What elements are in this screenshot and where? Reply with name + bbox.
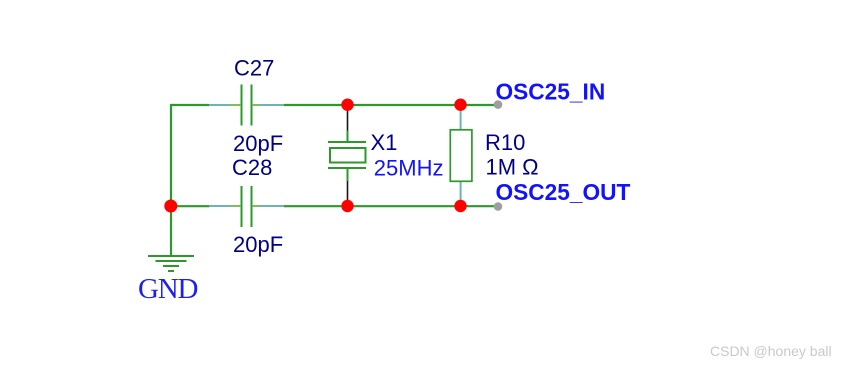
capacitor C27 pin 2 [253,104,284,106]
svg-text:20pF: 20pF [233,131,283,156]
resistor R10 pin 2 [460,181,462,201]
svg-text:R10: R10 [485,130,525,155]
junction top resistor [454,99,466,111]
wire left vertical [170,104,172,206]
node OSC25_OUT port dot [494,202,503,211]
wire bottom rail right segment [284,205,498,207]
capacitor C28 pin 2 [253,205,284,207]
wire top rail right segment [284,104,498,106]
svg-text:25MHz: 25MHz [374,156,444,181]
capacitor C27 [242,85,252,126]
junction bottom left [164,200,177,213]
resistor R10 [450,130,472,182]
crystal X1 pin 1 [347,110,349,142]
svg-text:X1: X1 [371,130,398,155]
crystal X1 pin 2 [347,169,349,202]
ground [148,256,194,271]
capacitor C28 [242,186,252,227]
svg-text:CSDN @honey ball: CSDN @honey ball [710,343,832,359]
node OSC25_IN port dot [494,100,503,109]
capacitor C28 pin 1 [209,205,240,207]
svg-text:GND: GND [138,273,197,305]
crystal X1 [328,142,366,168]
capacitor C27 pin 1 [209,104,240,106]
svg-text:20pF: 20pF [233,232,283,257]
junction bottom crystal [341,200,353,212]
resistor R10 pin 1 [460,110,462,130]
junction top crystal [341,99,353,111]
svg-text:C27: C27 [234,56,274,81]
svg-text:OSC25_OUT: OSC25_OUT [496,179,631,205]
wire bottom rail left segment [170,205,209,207]
svg-text:OSC25_IN: OSC25_IN [496,79,606,105]
wire top rail left segment [170,104,209,106]
svg-text:C28: C28 [232,155,272,180]
wire GND stem [170,206,172,256]
junction bottom resistor [454,200,466,212]
svg-text:1M Ω: 1M Ω [486,155,539,180]
